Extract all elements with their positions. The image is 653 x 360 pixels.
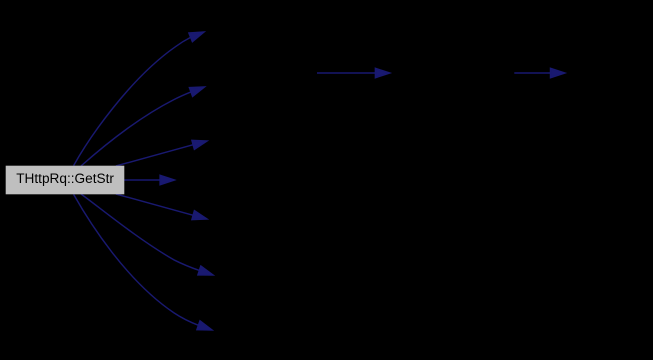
wire chain edge B: second-level to third-level callee	[514, 72, 550, 74]
wire edge 3: root to callee 3	[116, 145, 194, 166]
wire edge 5: root to callee 5	[116, 194, 194, 215]
wire edge 4: root to callee 4 (horizontal)	[124, 179, 160, 181]
wire edge 2: root to callee 2 (chain start)	[81, 92, 191, 166]
wire chain edge A: callee 2 to second-level callee	[317, 72, 377, 74]
node THttpRq::GetStr (root function box)	[6, 166, 125, 195]
wire edge 7: root to callee 7 (bottom)	[74, 194, 200, 325]
wire edge 6: root to callee 6	[81, 194, 200, 271]
svg-text:THttpRq::GetStr: THttpRq::GetStr	[16, 171, 114, 186]
wire edge 1: root to callee 1 (top)	[74, 37, 191, 166]
